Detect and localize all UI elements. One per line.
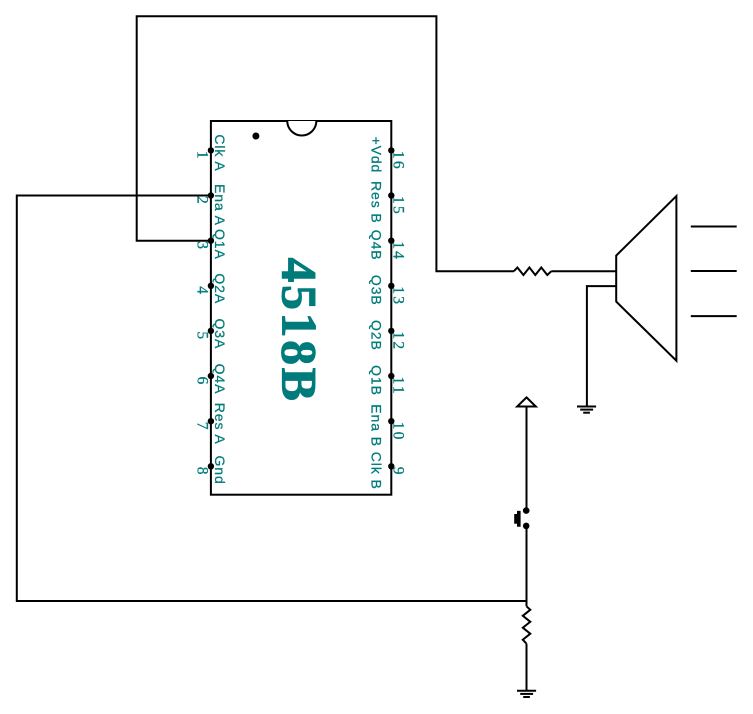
svg-text:5: 5 [194, 331, 211, 341]
svg-text:Q2A: Q2A [212, 273, 228, 304]
svg-text:Q4A: Q4A [212, 364, 228, 395]
speaker sound line 1 [691, 226, 737, 228]
pin 2 dot [208, 192, 214, 198]
pushbutton S1 bottom contact [523, 523, 530, 530]
pin 12 dot [388, 328, 394, 334]
IC U1 4518B body [211, 121, 391, 495]
svg-text:+Vdd: +Vdd [369, 137, 385, 174]
pin 14 dot [388, 238, 394, 244]
IC pin-1 indicator dot [252, 133, 259, 140]
pushbutton S1 top contact [523, 507, 530, 514]
svg-text:15: 15 [390, 196, 407, 216]
svg-text:Q3B: Q3B [369, 275, 385, 306]
wire button to junction [526, 529, 528, 601]
svg-text:4: 4 [194, 286, 211, 296]
ground G1 [517, 691, 536, 697]
svg-text:12: 12 [390, 331, 407, 351]
pin 4 dot [208, 283, 214, 289]
pin 10 dot [388, 418, 394, 424]
svg-text:14: 14 [390, 241, 407, 261]
svg-text:2: 2 [194, 196, 211, 206]
wire pin3 to top loop to resistor R1 [137, 16, 514, 271]
svg-text:Clk B: Clk B [369, 452, 385, 490]
svg-text:Ena B: Ena B [369, 404, 385, 447]
svg-text:16: 16 [390, 151, 407, 171]
svg-text:6: 6 [194, 377, 211, 387]
pin 16 dot [388, 147, 394, 153]
svg-text:Clk A: Clk A [212, 134, 228, 171]
svg-text:8: 8 [194, 467, 211, 477]
svg-text:Q2B: Q2B [369, 320, 385, 351]
ground G2 [577, 407, 596, 413]
wire supply arrow to button [526, 407, 528, 508]
pin 15 dot [388, 192, 394, 198]
svg-text:Q1A: Q1A [212, 229, 228, 260]
svg-text:Q4B: Q4B [369, 230, 385, 261]
svg-text:Res A: Res A [212, 403, 228, 445]
wire resistor R1 to speaker [551, 270, 616, 272]
wire resistor R2 to ground G1 [526, 644, 528, 691]
wire junction to resistor R2 [526, 601, 528, 606]
svg-text:13: 13 [390, 286, 407, 306]
pushbutton S1 actuator [514, 511, 520, 527]
IC notch [287, 121, 316, 136]
svg-text:1: 1 [194, 151, 211, 161]
svg-text:10: 10 [390, 422, 407, 442]
pin 9 dot [388, 463, 394, 469]
speaker sound line 2 [691, 270, 737, 272]
wire pin2 to left loop to bottom junction [17, 196, 527, 602]
speaker LS1 [616, 196, 676, 361]
pin 7 dot [208, 418, 214, 424]
pin 1 dot [208, 147, 214, 153]
pin 3 dot [208, 238, 214, 244]
svg-text:Ena A: Ena A [212, 184, 228, 226]
pin 11 dot [388, 373, 394, 379]
svg-text:Q1B: Q1B [369, 365, 385, 396]
svg-text:Res B: Res B [369, 181, 385, 224]
speaker sound line 3 [691, 315, 737, 317]
svg-text:3: 3 [194, 241, 211, 251]
svg-text:7: 7 [194, 422, 211, 432]
resistor R2 [523, 606, 531, 643]
svg-text:4518B: 4518B [271, 258, 327, 402]
wire speaker to ground G2 [587, 286, 616, 406]
pin 8 dot [208, 463, 214, 469]
pin 6 dot [208, 373, 214, 379]
svg-text:11: 11 [390, 377, 407, 396]
pin 13 dot [388, 283, 394, 289]
supply arrow [517, 397, 536, 406]
resistor R1 [514, 268, 551, 276]
svg-text:Q3A: Q3A [212, 319, 228, 350]
svg-text:9: 9 [390, 467, 407, 477]
svg-text:Gnd: Gnd [212, 456, 228, 485]
pin 5 dot [208, 328, 214, 334]
